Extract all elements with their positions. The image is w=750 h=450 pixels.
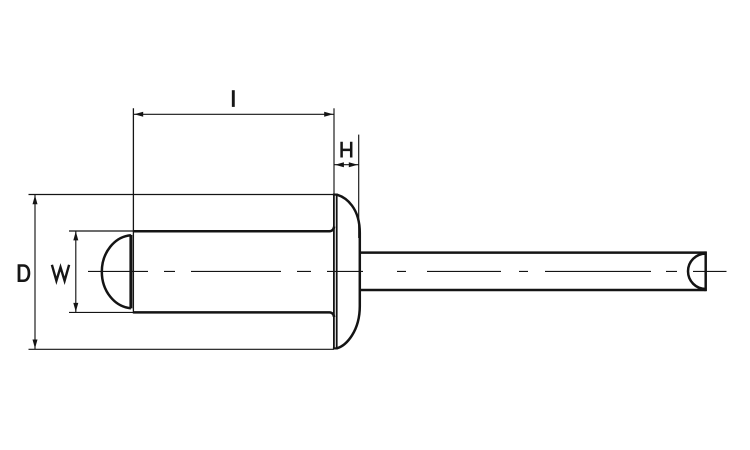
arrow D top [33,195,38,204]
rivet body top line [133,227,334,232]
arrow W top [73,231,78,240]
arrow I left [134,112,143,117]
dimension D line [34,195,36,350]
dimension I line [133,113,334,115]
dimension W line [75,231,77,312]
arrow H right [349,162,358,167]
dimension H line [334,164,359,166]
mandrel stem top line [360,251,706,254]
dimension W top extension [69,230,134,232]
mandrel stem end arc [688,254,706,289]
label D [18,264,31,282]
arrow I right [324,112,333,117]
centerline [88,270,727,272]
label I [232,90,235,107]
mandrel stem bottom line [360,289,706,292]
rivet flange bottom tick [333,347,338,349]
arrow H left [335,162,344,167]
rivet flange dome profile [337,195,360,349]
rivet flange outer back line [336,195,338,349]
arrow W bottom [73,303,78,312]
rivet flange top tick [333,194,338,196]
mandrel head dome [102,235,131,308]
rivet body bottom line [133,312,334,317]
mandrel head flat face [129,235,132,309]
dimension D bottom extension [29,348,335,350]
dimension H right extension [358,135,360,238]
label H [342,142,352,158]
rivet flange inner back line [333,195,335,349]
rivet body left edge [132,108,134,313]
arrow D bottom [33,340,38,349]
mandrel stem end vertical [704,251,707,291]
dimension D top extension [29,194,335,196]
dimension W bottom extension [69,311,134,313]
label W [52,265,69,281]
dimension I right extension [333,108,335,194]
